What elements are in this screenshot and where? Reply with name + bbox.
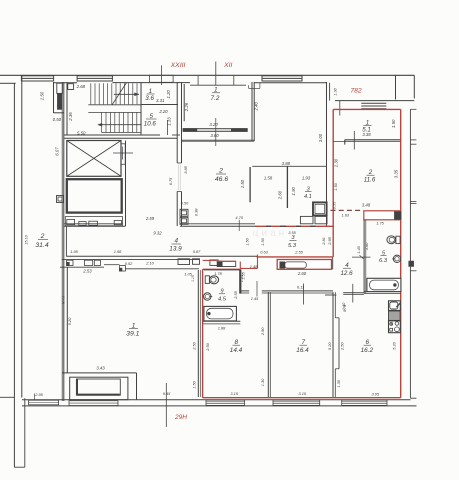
svg-text:11.6: 11.6 <box>364 177 376 184</box>
svg-text:2.81: 2.81 <box>321 237 326 246</box>
svg-text:1.75: 1.75 <box>376 220 384 225</box>
svg-text:1.50: 1.50 <box>40 91 45 100</box>
stair arrow upper horizontal <box>114 93 139 95</box>
red corridor bottom <box>257 256 334 258</box>
red dashed opening room4 <box>331 209 363 211</box>
wall room 31.4 left <box>21 76 23 398</box>
svg-text:3.60: 3.60 <box>364 242 369 250</box>
stair left wall <box>66 82 68 135</box>
svg-text:1.50: 1.50 <box>191 380 196 388</box>
toilet bath9 <box>205 276 209 284</box>
svg-text:5.87: 5.87 <box>193 249 201 254</box>
wall below window 7.2 <box>181 139 254 141</box>
svg-text:1.58: 1.58 <box>264 175 273 180</box>
bath63 left wall <box>363 220 365 294</box>
mail band <box>65 215 122 217</box>
svg-text:3.35: 3.35 <box>393 169 398 178</box>
window top W2 <box>77 76 112 81</box>
svg-text:1.45: 1.45 <box>251 296 259 301</box>
kitchen stove <box>389 321 401 333</box>
room 39.1 left wall <box>66 267 68 373</box>
red corridor top <box>255 225 333 227</box>
svg-text:1.20: 1.20 <box>166 90 171 99</box>
svg-text:XII: XII <box>223 62 232 69</box>
loggia box outer <box>70 377 128 400</box>
svg-text:2.60: 2.60 <box>297 271 307 276</box>
window room 7.2 <box>183 129 247 132</box>
gallery ticks <box>410 108 416 110</box>
divider room7/6 <box>332 292 334 397</box>
top-right notch walls <box>395 76 397 100</box>
svg-text:9.45: 9.45 <box>163 391 171 396</box>
svg-text:1.50: 1.50 <box>240 179 245 188</box>
svg-text:4.75: 4.75 <box>235 215 243 220</box>
vestibule right wall <box>53 82 55 113</box>
room 7 top wall <box>270 290 333 292</box>
svg-text:3.85: 3.85 <box>183 165 188 173</box>
closet top line <box>252 165 326 167</box>
closet divider <box>286 166 288 208</box>
svg-text:782: 782 <box>350 88 362 95</box>
svg-text:3.00: 3.00 <box>318 133 323 142</box>
room 7.2 left wall <box>183 84 185 121</box>
svg-text:5.20: 5.20 <box>392 341 397 349</box>
door boxes below corridor <box>67 260 73 265</box>
svg-text:2.36: 2.36 <box>68 112 73 122</box>
svg-text:2.68: 2.68 <box>76 84 86 89</box>
elevator 1 X-box <box>67 141 121 177</box>
wall branch left x127 <box>125 141 127 227</box>
stair lower flight bottom <box>102 132 141 134</box>
svg-text:5.3: 5.3 <box>288 243 297 249</box>
counter boxes <box>300 216 313 223</box>
divider room8/7 <box>267 292 269 397</box>
elevator 1 door tab <box>121 144 125 165</box>
closet red room4w <box>277 260 331 270</box>
svg-text:0.50: 0.50 <box>181 201 189 206</box>
closet black sq <box>280 262 285 268</box>
svg-text:2: 2 <box>40 233 45 240</box>
tick room7 top <box>303 284 305 305</box>
svg-text:циан: циан <box>253 228 287 239</box>
recess window <box>361 102 386 104</box>
svg-text:2.10: 2.10 <box>145 260 154 265</box>
svg-text:3.20: 3.20 <box>209 122 218 127</box>
room 10.6 bottom wall <box>141 134 160 136</box>
svg-text:1.50: 1.50 <box>260 237 265 245</box>
svg-text:6.3: 6.3 <box>379 258 388 264</box>
svg-text:39.1: 39.1 <box>126 331 139 338</box>
gallery line right <box>409 109 411 398</box>
svg-text:1.95: 1.95 <box>70 249 78 254</box>
kitchen counter gray <box>389 311 401 320</box>
bath9 top wall black <box>204 269 240 271</box>
svg-text:3.43: 3.43 <box>96 366 105 371</box>
recess edge line <box>335 100 414 102</box>
svg-text:3.38: 3.38 <box>362 132 371 137</box>
svg-text:6.75: 6.75 <box>168 177 173 185</box>
svg-text:5.50: 5.50 <box>77 130 86 135</box>
svg-text:0.55: 0.55 <box>332 201 337 209</box>
bottom wall outer <box>22 405 417 407</box>
wall left end cap <box>0 396 14 398</box>
toilet bath63 <box>396 236 400 243</box>
axis 29H line <box>165 383 167 427</box>
svg-text:3.55: 3.55 <box>288 230 296 235</box>
wall x66.4 below elevators <box>65 226 67 256</box>
gallery black mark <box>409 261 414 266</box>
svg-text:1.90: 1.90 <box>291 187 296 196</box>
svg-text:0.70: 0.70 <box>343 305 347 312</box>
room 46.6 right wall <box>326 82 328 226</box>
loggia top wall <box>62 372 137 374</box>
room 6 top wall <box>343 292 364 294</box>
svg-text:2.26: 2.26 <box>184 102 189 112</box>
shower box <box>313 202 327 215</box>
tick cross 5.1 <box>353 131 355 150</box>
room 8 top wall <box>240 290 249 292</box>
svg-text:1.33: 1.33 <box>166 117 171 126</box>
door leaf vestibule black <box>58 94 62 110</box>
tick 2.95 <box>34 394 36 400</box>
kitchen sink <box>389 301 401 311</box>
stair right wall <box>140 82 142 135</box>
stair upper flight treads <box>90 83 92 104</box>
loggia box inner <box>76 379 120 395</box>
svg-text:0.52: 0.52 <box>125 261 133 266</box>
svg-text:0.63: 0.63 <box>260 249 268 254</box>
bath63 bottom wall <box>364 291 401 293</box>
loggia right wall <box>136 373 138 400</box>
door leaf 10.6 <box>167 120 169 135</box>
red outline left lower <box>202 269 204 397</box>
bath9 right wall <box>239 269 241 293</box>
axis XII line <box>215 62 217 86</box>
gallery bottom tick <box>410 397 416 399</box>
svg-text:3.05: 3.05 <box>372 391 380 396</box>
svg-text:16.2: 16.2 <box>361 347 374 354</box>
closet inner slot <box>285 262 307 268</box>
bottom window 5 <box>342 400 387 405</box>
svg-text:0.38: 0.38 <box>194 208 199 216</box>
svg-text:15.10: 15.10 <box>25 234 29 244</box>
svg-text:7.2: 7.2 <box>211 95 220 102</box>
wall 5.1/11.6 <box>345 139 400 141</box>
wall stub 5.1 <box>344 140 346 145</box>
svg-text:2.59: 2.59 <box>145 216 155 221</box>
svg-text:1.50: 1.50 <box>333 182 338 190</box>
door frame vestibule <box>57 83 63 93</box>
svg-text:2.55: 2.55 <box>294 249 303 254</box>
sink bath9 <box>204 293 211 300</box>
svg-text:1.30: 1.30 <box>336 379 341 387</box>
svg-text:3.6: 3.6 <box>145 95 154 102</box>
pier right wall <box>24 398 26 467</box>
vestibule bottom <box>54 112 64 114</box>
svg-text:2.60: 2.60 <box>277 190 282 200</box>
red bath9 top <box>203 268 241 270</box>
tub bath63 <box>367 278 401 291</box>
svg-text:3.88: 3.88 <box>282 161 291 166</box>
wall piece x332.7 <box>332 258 334 270</box>
svg-text:1.63: 1.63 <box>342 213 350 218</box>
shelf room 4 <box>364 211 401 220</box>
svg-text:5.20: 5.20 <box>327 342 332 350</box>
svg-text:1: 1 <box>214 87 218 94</box>
svg-text:31.4: 31.4 <box>35 242 48 249</box>
svg-text:1.30: 1.30 <box>260 378 265 386</box>
bottom window 3 <box>206 400 245 405</box>
pier stub <box>339 101 341 116</box>
svg-text:1.55: 1.55 <box>240 271 245 279</box>
svg-text:29Н: 29Н <box>174 414 187 421</box>
stair bottom wall <box>64 134 141 136</box>
svg-text:6.11: 6.11 <box>297 284 304 289</box>
bottom window 2 <box>69 401 118 406</box>
svg-text:2.50: 2.50 <box>339 342 344 351</box>
svg-text:8.73: 8.73 <box>61 295 66 304</box>
mail boxes <box>67 220 75 225</box>
stair landing lines <box>88 104 141 106</box>
svg-text:2.53: 2.53 <box>82 269 92 274</box>
divider 3.6/10.6 <box>141 104 178 106</box>
shelf black box <box>395 212 401 219</box>
svg-text:3.15: 3.15 <box>230 391 238 396</box>
svg-text:3.31: 3.31 <box>156 98 165 103</box>
wall top outer <box>0 74 415 76</box>
svg-text:1.93: 1.93 <box>302 175 311 180</box>
svg-text:0.50: 0.50 <box>53 117 62 122</box>
dim line 1.40 bath <box>352 256 371 258</box>
red niche segs <box>203 259 217 261</box>
pier bottom cap <box>14 466 24 468</box>
wall x329.6 upper <box>329 83 331 101</box>
window top-left W1 <box>21 76 53 81</box>
elevator crosshair <box>113 152 133 154</box>
shaft boxes right of x180 <box>180 209 188 216</box>
partition stub room 46.6 <box>249 167 251 202</box>
svg-text:2: 2 <box>218 168 223 175</box>
bath9 bottom wall <box>203 320 241 322</box>
svg-text:13.9: 13.9 <box>169 246 182 253</box>
svg-text:14.4: 14.4 <box>230 347 243 354</box>
svg-text:9.32: 9.32 <box>153 231 162 236</box>
wall seg west of door <box>325 294 336 296</box>
svg-text:1.50: 1.50 <box>391 119 396 128</box>
stair lower flight treads <box>101 112 103 132</box>
svg-text:12.6: 12.6 <box>340 270 353 277</box>
dashes on red corridor top <box>266 225 271 227</box>
axis XXIII line <box>160 65 162 85</box>
svg-text:1.88: 1.88 <box>218 325 226 330</box>
wall x177-181.5 with door <box>176 82 178 163</box>
svg-text:16.4: 16.4 <box>296 347 309 354</box>
tub bath9 <box>204 306 237 321</box>
wall left inner pier <box>13 83 15 467</box>
svg-text:2.20: 2.20 <box>158 109 168 114</box>
wall room 31.4 right <box>61 82 63 401</box>
svg-text:4.1: 4.1 <box>304 194 312 200</box>
door box wall 31.4 <box>57 196 64 203</box>
corridor top wall <box>64 223 123 225</box>
svg-text:2.50: 2.50 <box>191 341 196 350</box>
svg-text:1.40: 1.40 <box>356 245 361 253</box>
window top W3 <box>262 76 302 81</box>
svg-text:3.48: 3.48 <box>362 202 371 207</box>
svg-text:4.5: 4.5 <box>218 296 227 302</box>
niche top of 46.6ext <box>249 87 260 89</box>
red outline top <box>333 108 401 110</box>
svg-text:XXIII: XXIII <box>170 62 186 69</box>
stair arrow upper diagonal <box>112 83 127 106</box>
wall top inner segments <box>0 82 16 84</box>
svg-text:1.05: 1.05 <box>184 272 192 277</box>
svg-text:1.48: 1.48 <box>250 264 258 269</box>
svg-text:2.50: 2.50 <box>205 342 210 351</box>
room 7.2 right wall <box>251 82 253 141</box>
svg-text:3.15: 3.15 <box>299 391 307 396</box>
svg-text:2.40: 2.40 <box>253 102 258 112</box>
svg-text:2.90: 2.90 <box>260 327 265 336</box>
stair arrow lower <box>100 124 141 126</box>
svg-text:1.58: 1.58 <box>114 249 122 254</box>
cabinet niche bath9 <box>217 261 235 266</box>
red outline bottom <box>203 397 401 399</box>
bottom wall inner <box>22 399 411 401</box>
svg-text:1.30: 1.30 <box>333 87 338 95</box>
svg-text:1.78: 1.78 <box>214 271 222 276</box>
corridor bottom wall <box>66 255 257 257</box>
sink bath63 <box>393 255 400 262</box>
bottom window 1 <box>29 400 59 405</box>
stair corner box <box>68 84 74 90</box>
svg-text:10.6: 10.6 <box>144 121 157 128</box>
room 39.1 right wall <box>197 270 199 397</box>
svg-text:1.50: 1.50 <box>245 237 250 245</box>
window cells above room 7.2 <box>190 84 246 86</box>
elevator 2 box <box>67 179 122 212</box>
svg-text:2.95: 2.95 <box>34 392 43 397</box>
room 39.1 top wall <box>60 266 104 268</box>
bottom window 4 <box>273 400 320 405</box>
red outline right <box>400 109 402 397</box>
window cells above room 3.6 <box>150 75 174 82</box>
svg-text:6.07: 6.07 <box>54 147 59 156</box>
red outline left upper <box>332 109 334 257</box>
svg-text:46.6: 46.6 <box>215 176 228 183</box>
svg-text:2.55: 2.55 <box>233 290 238 299</box>
svg-text:3.60: 3.60 <box>210 133 219 138</box>
tick room6 door <box>352 284 354 303</box>
svg-text:1.30: 1.30 <box>333 158 338 167</box>
axis XII window tick <box>215 118 217 146</box>
svg-text:2.95: 2.95 <box>327 236 332 245</box>
svg-text:4: 4 <box>175 238 179 245</box>
